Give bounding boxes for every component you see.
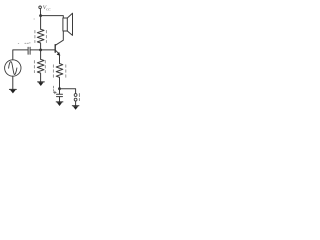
- output marks: [78, 94, 80, 101]
- wire source top: [13, 50, 28, 60]
- wire to output: [60, 89, 76, 94]
- wire cap to base: [30, 49, 55, 51]
- resistor R1: [37, 29, 44, 50]
- resistor RE: [56, 64, 63, 89]
- output terminal bottom: [74, 98, 77, 101]
- capacitor CE: [57, 89, 63, 102]
- plus sign CE: [54, 91, 57, 94]
- wire junction to R2: [40, 50, 42, 59]
- wire output to ground: [75, 101, 77, 106]
- wire Vcc stem: [39, 9, 41, 16]
- wire emitter to RE: [59, 55, 61, 64]
- AC source V1: [5, 60, 21, 76]
- transistor Q1: [55, 45, 60, 56]
- speaker LS1: [63, 13, 73, 35]
- speck mark: [33, 18, 36, 20]
- R2 dashed sides: [34, 61, 45, 73]
- R1 dashed sides: [35, 31, 47, 43]
- ground under R2: [38, 82, 45, 86]
- output terminal top: [74, 94, 77, 97]
- wire speaker to collector: [56, 31, 64, 45]
- ground under output: [72, 106, 79, 110]
- wire top rail to speaker: [41, 16, 64, 18]
- node base junction: [39, 49, 42, 52]
- label CE marks: [53, 86, 55, 91]
- wire junction to R1: [40, 16, 42, 30]
- svg-text:VCC: VCC: [43, 5, 52, 11]
- capacitor C1: [28, 47, 30, 54]
- ground under source: [9, 89, 16, 93]
- resistor R2: [37, 59, 44, 82]
- wire source bottom: [12, 76, 14, 89]
- RE dashed sides: [53, 65, 65, 80]
- ground under CE: [56, 102, 63, 106]
- node Vcc junction: [39, 14, 42, 17]
- node emitter junction: [58, 87, 61, 90]
- Vcc terminal: [39, 6, 42, 9]
- label vi marks: [18, 42, 30, 45]
